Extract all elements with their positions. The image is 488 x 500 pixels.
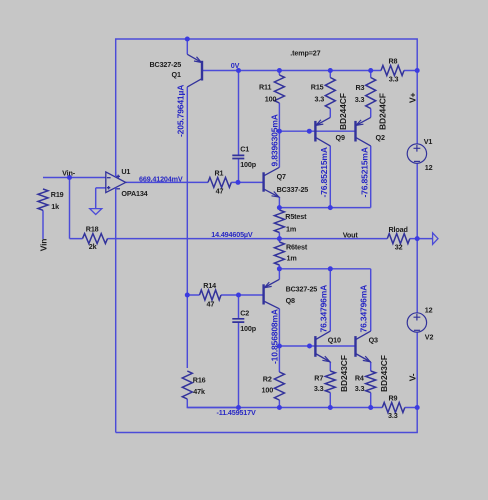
wire power rails outer loop (V+ top rail, V- bottom rail, left/right rails) [116, 39, 418, 433]
junction C2 bottom / -11.45V row [236, 405, 241, 410]
resistor R5test [274, 210, 284, 233]
transistor Q8 emitter arrow [264, 282, 271, 288]
wire Q8 collector down [278, 309, 280, 346]
svg-text:R6test: R6test [286, 243, 308, 252]
svg-text:V2: V2 [425, 333, 434, 342]
wire R19 bottom stub (Vin) [42, 210, 44, 239]
svg-text:100p: 100p [240, 324, 257, 333]
resistor R7 [325, 371, 335, 393]
wire C2 vertical net [238, 295, 240, 408]
wire Q9 collector down [329, 146, 331, 208]
svg-text:12: 12 [425, 306, 433, 315]
junction R2 bottom [277, 405, 282, 410]
svg-text:BC337-25: BC337-25 [277, 185, 309, 194]
junction Q10 collector / row [328, 266, 333, 271]
junction 0V node / C1 [236, 68, 241, 73]
resistor R1 [208, 177, 231, 187]
wire Q3 emitter / R4 leads [370, 362, 372, 408]
wire R6test leads [278, 239, 280, 269]
wire op-amp non-inverting input to ground [96, 188, 106, 208]
wire Q10 emitter / R7 leads [329, 362, 331, 408]
resistor R4 [366, 371, 376, 393]
resistor R19 [38, 189, 48, 210]
svg-text:100: 100 [262, 386, 274, 395]
svg-text:47: 47 [216, 187, 224, 196]
svg-text:1m: 1m [286, 224, 296, 233]
svg-text:BD243CF: BD243CF [379, 355, 389, 392]
svg-text:-76.85215mA: -76.85215mA [360, 147, 370, 197]
resistor R18 [83, 234, 108, 244]
op-amp U1 OPA134 [106, 172, 126, 193]
wire R14 node to Q8 base [239, 294, 264, 296]
svg-text:V1: V1 [424, 137, 433, 146]
svg-text:9.8396305mA: 9.8396305mA [270, 114, 280, 166]
junction R8 / right rail [415, 68, 420, 73]
wire R9 leads [371, 407, 418, 409]
output port flag (right of Rload) [433, 233, 438, 245]
wire Vout/feedback row [70, 238, 388, 240]
svg-text:2k: 2k [89, 242, 97, 251]
transistor Q2 emitter arrow [356, 120, 363, 126]
svg-text:R16: R16 [193, 376, 206, 385]
svg-text:-11.459517V: -11.459517V [217, 408, 256, 417]
svg-text:R9: R9 [389, 394, 398, 403]
wire R3 leads [370, 71, 372, 118]
junction R9 / right rail [415, 405, 420, 410]
junction Q10 base pin [307, 344, 312, 349]
svg-text:C2: C2 [240, 309, 249, 318]
svg-text:669.41204mV: 669.41204mV [139, 174, 183, 183]
svg-text:Q10: Q10 [328, 336, 341, 345]
transistor Q7 emitter arrow [272, 192, 279, 198]
wire C1 vertical net [238, 71, 240, 183]
svg-text:R7: R7 [314, 373, 323, 382]
capacitor C2 [232, 319, 244, 322]
wire Q8 emitter node row [279, 268, 370, 270]
wire Rload right to output port [410, 238, 433, 240]
transistor Q2 (BD244CF PNP) [356, 117, 371, 145]
svg-text:3.3: 3.3 [355, 384, 365, 393]
transistor Q1 (BC327-25 PNP) [187, 54, 202, 87]
svg-text:3.3: 3.3 [389, 74, 399, 83]
svg-text:32: 32 [395, 243, 403, 252]
svg-text:Rload: Rload [389, 225, 408, 234]
resistor R16 [182, 371, 192, 399]
svg-text:14.494605µV: 14.494605µV [211, 230, 253, 239]
svg-text:R19: R19 [51, 190, 64, 199]
svg-text:-10.856808mA: -10.856808mA [270, 309, 280, 364]
junction Q9 collector / Q2 collector wire [328, 205, 333, 210]
wire R2 leads [278, 346, 280, 408]
wire Q3 collector up [370, 269, 372, 331]
op-amp U1 V- power pin wire [115, 188, 117, 193]
transistor Q1 emitter arrow [194, 57, 201, 63]
wire Vin- junction down to R18 [69, 178, 71, 239]
svg-text:OPA134: OPA134 [121, 189, 147, 198]
wire node 0V (Q1 base to R8) [202, 70, 371, 72]
svg-text:R15: R15 [311, 83, 324, 92]
svg-text:Q1: Q1 [172, 70, 181, 79]
wire R1 to Q7 base [231, 181, 263, 183]
svg-text:R5test: R5test [285, 212, 307, 221]
svg-text:BC327-25: BC327-25 [286, 285, 318, 294]
resistor R6test [274, 242, 284, 265]
svg-text:Q8: Q8 [286, 296, 295, 305]
transistor Q8 (BC327-25 PNP) [264, 279, 280, 309]
junction R7 bottom [328, 405, 333, 410]
resistor R15 [325, 78, 335, 109]
svg-text:R18: R18 [86, 224, 99, 233]
svg-text:-205.79641µA: -205.79641µA [176, 85, 186, 137]
transistor Q10 emitter arrow [322, 356, 329, 362]
junction Vout row / R5test / R6test [277, 236, 282, 241]
svg-text:R11: R11 [259, 83, 271, 92]
voltage source V2 [407, 313, 426, 332]
ground (COM flag below op-amp) [90, 209, 102, 215]
svg-text:3.3: 3.3 [315, 94, 325, 103]
svg-text:Q2: Q2 [376, 133, 385, 142]
svg-text:R2: R2 [263, 374, 272, 383]
transistor Q3 (BD243CF NPN) [356, 331, 371, 362]
wire Q7 emitter down [278, 197, 280, 207]
svg-text:3.3: 3.3 [314, 384, 324, 393]
resistor R11 [274, 75, 284, 103]
resistor R14 [200, 290, 222, 300]
junction 0V node / R15 [328, 68, 333, 73]
wire Vin- node to op-amp inverting input [43, 177, 106, 179]
svg-text:V-: V- [408, 373, 418, 381]
junction R4 / R9 [368, 405, 373, 410]
transistor Q3 emitter arrow [363, 356, 370, 362]
svg-text:U1: U1 [121, 167, 130, 176]
wire Q2 collector down [370, 146, 372, 208]
voltage source V1 [407, 144, 426, 163]
svg-text:Vin: Vin [39, 239, 49, 252]
junction 0V node / R11 [277, 68, 282, 73]
junction R6test / Q8 emitter [277, 266, 282, 271]
svg-text:Q3: Q3 [369, 336, 378, 345]
junction Q8 collector / R2 [277, 344, 282, 349]
resistor R3 [366, 78, 376, 109]
svg-text:Vout: Vout [343, 231, 359, 240]
svg-text:R3: R3 [356, 83, 365, 92]
wire R5test leads [278, 208, 280, 239]
svg-text:100p: 100p [240, 160, 257, 169]
svg-text:.temp=27: .temp=27 [290, 49, 320, 58]
junction Rload / right rail [415, 236, 420, 241]
svg-text:BD243CF: BD243CF [339, 355, 349, 392]
wire R15 leads [329, 71, 331, 118]
junction Q9 base pin [307, 129, 312, 134]
svg-text:3.3: 3.3 [388, 411, 398, 420]
wire R14 leads [187, 294, 238, 296]
junction V+ rail / Q1 emitter [185, 37, 190, 42]
svg-text:1k: 1k [51, 202, 59, 211]
transistor Q10 (BD243CF NPN) [315, 331, 330, 362]
svg-text:47: 47 [207, 299, 215, 308]
svg-text:R14: R14 [203, 281, 216, 290]
wire Q7 collector node to Q9/Q2 bases [279, 130, 355, 132]
junction Vin- node [67, 175, 72, 180]
svg-text:100: 100 [265, 94, 277, 103]
svg-text:-76.85215mA: -76.85215mA [319, 147, 329, 197]
wire Q1 collector down to R14/R16 column [186, 87, 188, 368]
svg-text:0V: 0V [231, 61, 240, 70]
junction R1 / C1 / Q7 base [236, 180, 241, 185]
svg-text:47k: 47k [193, 387, 205, 396]
wire Q1 emitter to V+ rail [186, 39, 188, 54]
wire Q8 collector node to Q10/Q3 bases [279, 345, 355, 347]
junction Q7 emitter / R5test [277, 205, 282, 210]
svg-text:1m: 1m [287, 254, 297, 263]
junction 0V node / R3 / R8 [368, 68, 373, 73]
wire Q7 emitter node row [279, 207, 370, 209]
op-amp U1 V+ power pin wire [115, 172, 117, 177]
svg-text:76.34796mA: 76.34796mA [318, 285, 328, 333]
junction R14 left / collector column [185, 293, 190, 298]
svg-text:R8: R8 [389, 56, 398, 65]
wire node -11.459517V row [187, 407, 370, 409]
transistor Q9 (BD244CF PNP) [315, 117, 330, 145]
wire R16 bottom to -11.45V node [187, 399, 238, 408]
svg-text:R1: R1 [215, 169, 224, 178]
svg-text:76.34796mA: 76.34796mA [358, 285, 368, 333]
wire R8 leads [371, 70, 418, 72]
svg-text:3.3: 3.3 [355, 95, 365, 104]
transistor Q9 emitter arrow [316, 120, 323, 126]
resistor R9 [382, 403, 405, 413]
svg-text:12: 12 [425, 163, 433, 172]
junction R14 / C2 / Q8 base [236, 293, 241, 298]
wire op-amp output to R1 [126, 181, 208, 183]
resistor R8 [381, 66, 404, 76]
capacitor C1 [232, 155, 244, 158]
wire Q8 emitter up [278, 269, 280, 280]
svg-text:Q7: Q7 [277, 172, 286, 181]
svg-text:V+: V+ [407, 92, 417, 103]
svg-text:BD244CF: BD244CF [338, 93, 348, 130]
svg-text:C1: C1 [240, 145, 249, 154]
wire R11 leads [278, 71, 280, 132]
wire Q7 collector up [278, 131, 280, 167]
wire Q10 collector up [329, 269, 331, 331]
resistor R2 [274, 372, 284, 400]
svg-text:BD244CF: BD244CF [378, 93, 388, 130]
svg-text:Q9: Q9 [336, 133, 345, 142]
transistor Q7 (BC337-25 NPN) [264, 167, 280, 197]
svg-text:BC327-25: BC327-25 [150, 60, 182, 69]
svg-text:Vin-: Vin- [62, 169, 76, 178]
svg-text:R4: R4 [355, 373, 364, 382]
resistor Rload [387, 234, 410, 244]
junction R11 / Q7 collector / base wire [277, 129, 282, 134]
